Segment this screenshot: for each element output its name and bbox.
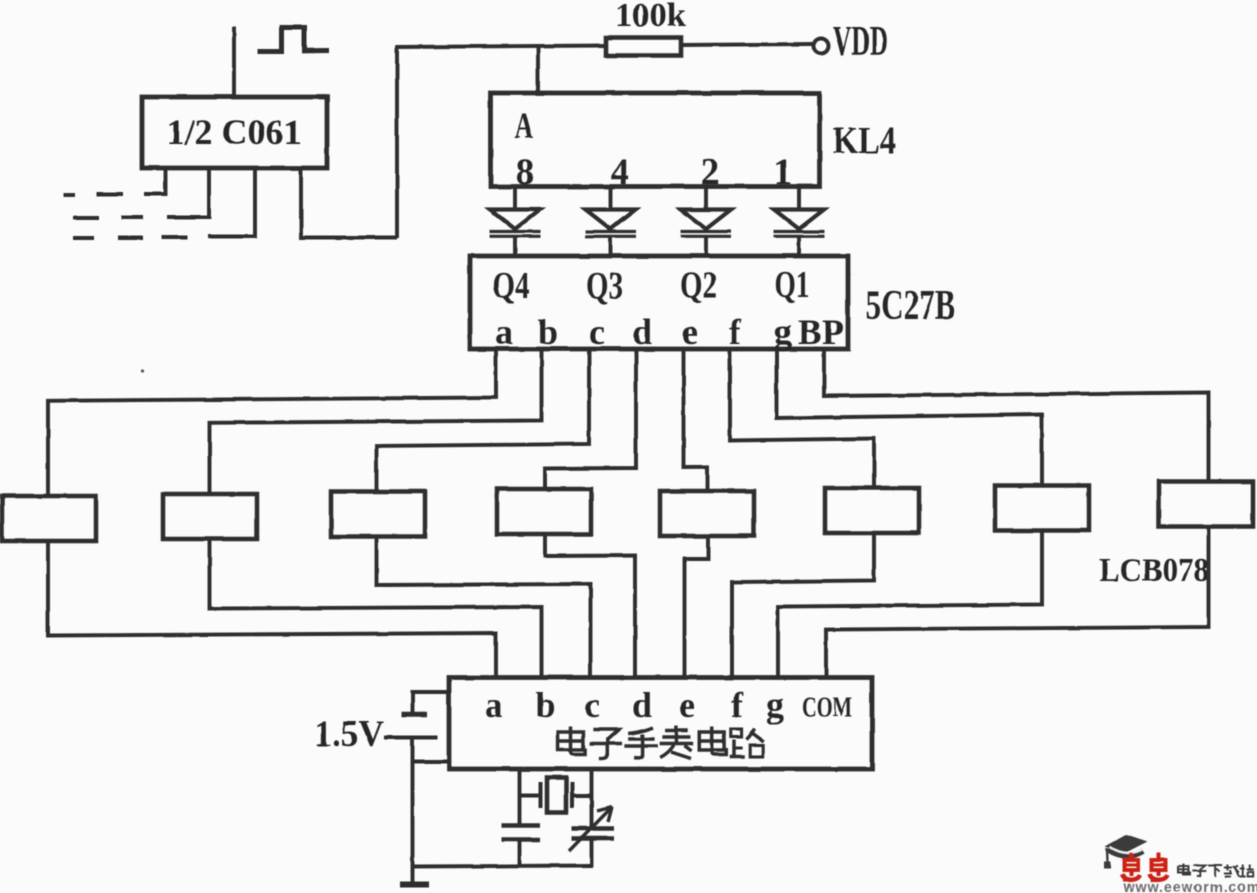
diode D3	[681, 187, 732, 258]
svg-text:1/2 C061: 1/2 C061	[167, 112, 302, 152]
svg-text:COM: COM	[802, 692, 852, 724]
svg-text:e: e	[679, 685, 695, 725]
LCD pad 5 (LCB078 electrode)	[660, 491, 754, 536]
wire: C061 pin 1	[144, 168, 166, 194]
label: 电子手表电路 (electronic watch circuit)	[558, 726, 764, 759]
svg-text:A: A	[515, 106, 534, 147]
svg-text:a: a	[495, 312, 513, 352]
wire: segment g to LCD pad 7	[777, 349, 1043, 488]
svg-text:e: e	[682, 312, 698, 352]
IC KL4	[491, 93, 820, 187]
wire: VDD rail left segment	[396, 46, 608, 48]
wire: segment b to LCD pad 2	[210, 349, 542, 496]
IC: electronic watch circuit box	[449, 678, 872, 770]
svg-text:c: c	[589, 312, 605, 352]
svg-text:4: 4	[611, 152, 630, 193]
dashed wire row 3	[162, 235, 188, 239]
svg-text:2: 2	[701, 152, 720, 193]
clock pulse symbol	[258, 28, 330, 52]
wire: segment c to LCD pad 3	[377, 349, 590, 494]
svg-text:BP: BP	[798, 312, 844, 352]
diode D1	[490, 187, 541, 258]
wire: segment LCD pad 1 to a	[48, 539, 496, 679]
svg-text:d: d	[632, 685, 652, 725]
wire: C061 pin 2	[167, 168, 209, 217]
wire: C061 pin 3	[208, 168, 255, 237]
svg-text:a: a	[485, 685, 503, 725]
wire: battery branch to watch box lower pin	[413, 760, 450, 764]
wire: oscillator right leg	[590, 770, 594, 828]
resistor 100k	[606, 38, 681, 56]
dashed wire row 2	[121, 216, 143, 220]
svg-text:100k: 100k	[615, 0, 686, 34]
wire: clock input into C061	[232, 27, 236, 98]
crystal Y1 body	[547, 778, 566, 813]
IC 5C27B	[470, 256, 848, 349]
LCD pad 6 (LCB078 electrode)	[825, 488, 919, 533]
LCD pad 2 (LCB078 electrode)	[163, 494, 257, 539]
wire: segment LCD pad 4 to d	[545, 532, 635, 679]
watermark: graduation cap	[1104, 835, 1148, 869]
svg-text:f: f	[731, 685, 744, 725]
LCD pad 7 (LCB078 electrode)	[995, 486, 1089, 531]
wire: segment LCD pad 8 to COM	[826, 525, 1209, 680]
watermark: 电子下载站 text	[1179, 864, 1254, 877]
svg-text:Q1: Q1	[775, 264, 810, 306]
wire: capacitor C to bottom rail	[518, 840, 522, 868]
LCD pad 1 (LCB078 electrode)	[2, 496, 96, 541]
IC U1 1/2 C061	[142, 97, 327, 168]
paper speck	[141, 369, 144, 372]
svg-text:c: c	[584, 685, 600, 725]
wire: segment f to LCD pad 6	[730, 349, 874, 490]
wire: segment e to LCD pad 5	[684, 349, 708, 493]
LCD pad 4 (LCB078 electrode)	[497, 489, 591, 534]
wire: segment a to LCD pad 1	[48, 349, 496, 498]
svg-text:8: 8	[516, 152, 535, 193]
wire: bottom rail	[411, 866, 593, 867]
diode D2	[585, 187, 636, 258]
crystal Y1 right plate	[570, 782, 574, 808]
wire: segment LCD pad 3 to c	[377, 535, 591, 680]
trimmer capacitor plate top	[572, 826, 615, 831]
trimmer capacitor plate bottom	[572, 836, 615, 841]
wire: trimmer to bottom rail	[590, 839, 594, 867]
wire: segment LCD pad 2 to b	[210, 537, 542, 679]
svg-text:5C27B: 5C27B	[866, 283, 956, 329]
trimmer arrow	[569, 807, 612, 851]
battery 1.5V positive plate	[402, 712, 428, 718]
wire: rail left vertical drop	[395, 46, 399, 239]
svg-text:KL4: KL4	[833, 120, 896, 162]
svg-text:1: 1	[774, 152, 793, 193]
wire: segment LCD pad 5 to e	[685, 534, 709, 679]
dashed wire row 1	[96, 193, 123, 197]
svg-text:f: f	[729, 312, 742, 352]
svg-text:Q3: Q3	[586, 265, 623, 307]
svg-text:VDD: VDD	[833, 19, 888, 65]
battery 1.5V negative plate	[384, 736, 438, 740]
wire: segment LCD pad 7 to g	[778, 529, 1042, 680]
wire: segment LCD pad 6 to f	[732, 531, 874, 679]
svg-text:Q2: Q2	[680, 265, 717, 307]
svg-text:g: g	[766, 685, 784, 725]
svg-text:d: d	[632, 312, 652, 352]
svg-text:www.eeworm.com: www.eeworm.com	[1123, 880, 1257, 893]
capacitor C plate bottom	[502, 837, 541, 842]
wire: battery negative down + branch to watch box	[411, 738, 415, 867]
svg-text:b: b	[535, 685, 555, 725]
wire: segment BP to LCD pad 8	[824, 349, 1209, 484]
wire: crystal left lead	[520, 794, 540, 798]
LCD pad 8 (LCB078 electrode)	[1159, 482, 1253, 527]
crystal Y1 left plate	[539, 782, 543, 808]
wire: rail drop to KL4 pin A	[536, 46, 540, 95]
ground terminal bar	[411, 867, 415, 884]
wire: C061 pin 4 to VDD rail	[301, 168, 397, 238]
watermark: 虫虫 red characters	[1122, 853, 1168, 881]
wire: crystal right lead	[572, 794, 592, 798]
wire: segment d to LCD pad 4	[545, 349, 636, 491]
wire: oscillator left leg	[518, 770, 522, 825]
svg-text:Q4: Q4	[493, 265, 530, 307]
capacitor C plate top	[502, 823, 541, 828]
svg-text:b: b	[538, 312, 558, 352]
diode D4	[774, 187, 825, 258]
terminal VDD	[814, 39, 829, 54]
svg-text:g: g	[774, 312, 792, 352]
svg-text:LCB078: LCB078	[1099, 552, 1209, 589]
wire: VDD rail right segment	[680, 44, 813, 45]
wire: battery positive to watch box	[413, 692, 450, 712]
LCD pad 3 (LCB078 electrode)	[331, 492, 425, 537]
svg-text:1.5V: 1.5V	[314, 714, 384, 755]
